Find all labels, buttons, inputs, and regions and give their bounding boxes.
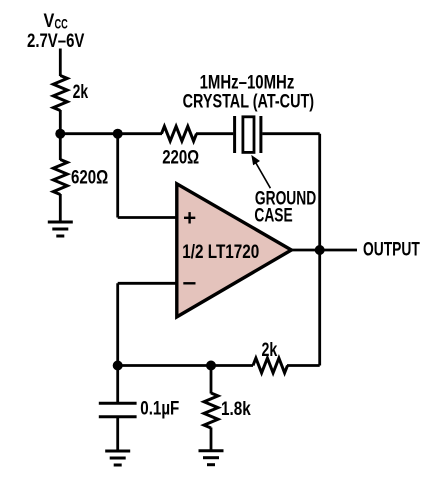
wire node A to R2	[59, 134, 62, 160]
resistor R2 620ohm	[53, 160, 67, 195]
svg-text:CASE: CASE	[254, 204, 292, 226]
op-amp U1 1/2 LT1720 triangle	[177, 184, 292, 317]
wire node B to R3	[118, 132, 162, 135]
wire - input to left	[118, 282, 177, 285]
node A junction dot	[55, 129, 65, 139]
node E junction dot	[206, 361, 216, 371]
wire R3 to crystal	[196, 132, 233, 135]
svg-text:620Ω: 620Ω	[71, 166, 108, 188]
wire VCC to R1	[59, 49, 62, 77]
op-amp + input symbol	[184, 217, 195, 219]
node B junction dot	[113, 129, 123, 139]
wire capacitor to ground	[116, 417, 119, 451]
crystal Y1 right plate	[259, 116, 262, 153]
svg-text:220Ω: 220Ω	[162, 147, 199, 169]
ground symbol under R2	[48, 221, 73, 224]
capacitor C1 0.1uF top plate	[99, 402, 137, 405]
capacitor C1 0.1uF bottom plate	[99, 415, 137, 418]
wire R1 to node A	[59, 110, 62, 134]
wire node E to R5	[210, 366, 213, 394]
svg-text:OUTPUT: OUTPUT	[363, 238, 420, 260]
resistor R1 2k (top)	[53, 76, 67, 111]
arrow to crystal case	[255, 161, 271, 189]
op-amp - input symbol	[183, 282, 195, 284]
wire node C to capacitor C1	[116, 366, 119, 404]
wire R2 to ground	[59, 194, 62, 222]
wire down to bottom node C	[116, 283, 119, 365]
svg-text:CC: CC	[55, 15, 68, 31]
resistor R4 2k (feedback)	[253, 358, 288, 373]
svg-text:CRYSTAL (AT-CUT): CRYSTAL (AT-CUT)	[183, 91, 315, 113]
ground symbol under R5	[199, 449, 224, 452]
svg-text:2k: 2k	[262, 339, 278, 361]
svg-text:1.8k: 1.8k	[221, 398, 251, 420]
node D output junction dot	[315, 245, 325, 255]
wire node C to node E	[118, 364, 253, 367]
wire node A to node B	[60, 132, 117, 135]
crystal Y1 left plate	[233, 116, 236, 153]
wire R5 to ground	[210, 428, 213, 451]
svg-text:2.7V–6V: 2.7V–6V	[27, 30, 84, 52]
wire crystal to right rail	[262, 132, 319, 135]
node C junction dot	[113, 361, 123, 371]
ground symbol under C1	[105, 450, 130, 453]
wire R4 to right rail	[287, 364, 320, 367]
wire node B down to + input level	[116, 134, 119, 218]
svg-text:0.1µF: 0.1µF	[140, 398, 179, 420]
wire right rail vertical	[318, 134, 321, 366]
svg-text:1/2 LT1720: 1/2 LT1720	[182, 241, 259, 263]
wire to + input	[118, 216, 177, 219]
resistor R3 220ohm	[162, 126, 197, 141]
svg-text:2k: 2k	[73, 81, 89, 103]
resistor R5 1.8k	[204, 393, 218, 428]
wire op-amp output	[291, 249, 357, 252]
svg-text:V: V	[44, 10, 55, 32]
crystal Y1 body box	[243, 117, 254, 153]
